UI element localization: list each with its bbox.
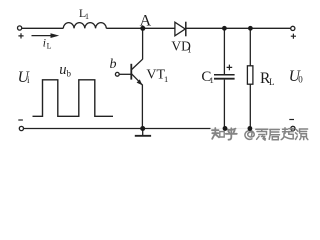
transistor VT1 base bar bbox=[130, 64, 132, 80]
wire top rail to capacitor C1 bbox=[223, 28, 225, 74]
junction dot bottom of C1 bbox=[223, 126, 228, 131]
minus sign input bbox=[18, 119, 23, 121]
inductor L1 bbox=[63, 23, 106, 29]
current iL arrow shaft bbox=[32, 35, 53, 37]
wire bottom rail bbox=[24, 128, 291, 130]
svg-text:1: 1 bbox=[187, 45, 191, 55]
svg-text:1: 1 bbox=[210, 75, 214, 85]
wire inductor to diode through node A bbox=[106, 27, 175, 29]
terminal output positive bbox=[291, 26, 295, 30]
wire emitter to bottom rail bbox=[141, 85, 143, 129]
wire top rail to resistor RL bbox=[249, 28, 251, 66]
waveform ub square pulses bbox=[33, 80, 114, 117]
terminal input positive bbox=[18, 26, 22, 30]
svg-text:0: 0 bbox=[298, 75, 303, 85]
watermark char zhi left part bbox=[212, 128, 219, 139]
watermark char hu bbox=[226, 128, 237, 139]
wire resistor RL to bottom rail bbox=[249, 84, 251, 128]
watermark char ling bbox=[256, 129, 268, 140]
watermark white halo band bbox=[211, 127, 309, 141]
current iL arrowhead bbox=[51, 33, 60, 38]
svg-text:b: b bbox=[110, 57, 117, 72]
node A junction dot bbox=[140, 26, 145, 31]
junction dot top of C1 bbox=[222, 26, 227, 31]
ground stub bbox=[142, 129, 144, 136]
terminal input negative bbox=[19, 126, 23, 130]
resistor RL body bbox=[247, 66, 253, 84]
wire capacitor C1 to bottom rail bbox=[223, 80, 225, 129]
junction dot bottom of RL over watermark bbox=[248, 126, 253, 131]
diode VD1 anode triangle bbox=[175, 22, 185, 36]
svg-text:A: A bbox=[140, 12, 152, 29]
svg-text:u: u bbox=[59, 62, 66, 78]
svg-text:1: 1 bbox=[85, 12, 89, 21]
wire diode to output terminal bbox=[186, 27, 291, 29]
junction dot bottom of RL bbox=[248, 126, 253, 131]
wire base lead bbox=[119, 73, 131, 75]
watermark char zhi mouth box bbox=[220, 132, 224, 137]
watermark at sign bbox=[245, 131, 254, 140]
diode VD1 cathode bar bbox=[185, 22, 187, 37]
terminal output negative bbox=[291, 126, 295, 130]
watermark char yuan bbox=[296, 129, 308, 140]
plus sign output bbox=[291, 34, 296, 39]
ground bar bbox=[135, 135, 151, 137]
plus sign input bbox=[18, 33, 23, 38]
transistor VT1 base terminal b bbox=[115, 72, 119, 76]
minus sign output bbox=[289, 119, 294, 121]
terminal output negative redraw over halo bbox=[291, 126, 295, 130]
svg-text:VT: VT bbox=[146, 68, 165, 83]
watermark char ju bbox=[269, 130, 279, 140]
capacitor C1 top plate bbox=[214, 74, 235, 76]
junction dot top of RL bbox=[248, 26, 253, 31]
transistor VT1 collector lead bbox=[131, 59, 142, 70]
transistor VT1 emitter arrow bbox=[137, 79, 143, 85]
svg-text:b: b bbox=[67, 68, 72, 78]
junction dot emitter at bottom rail bbox=[140, 126, 145, 131]
transistor VT1 emitter lead bbox=[131, 74, 142, 85]
watermark char qi bbox=[281, 128, 293, 140]
svg-text:L: L bbox=[269, 77, 275, 87]
junction dot bottom of C1 over watermark bbox=[223, 126, 228, 131]
wire input to inductor bbox=[22, 27, 64, 29]
plus sign capacitor C1 polarity bbox=[227, 65, 233, 71]
wire collector to node A bbox=[142, 28, 144, 59]
svg-text:L: L bbox=[47, 42, 52, 51]
svg-text:i: i bbox=[43, 38, 46, 50]
capacitor C1 bottom plate bbox=[214, 78, 235, 80]
svg-text:1: 1 bbox=[164, 74, 168, 84]
